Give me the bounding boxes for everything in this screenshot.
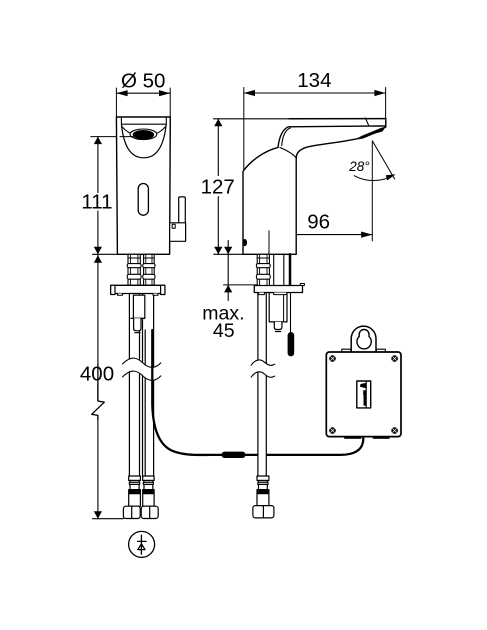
symbol triangle [138,544,145,550]
fitting side [253,476,274,518]
dimension max45 flange reference line [224,284,259,286]
dimension 400 line lower [97,384,99,402]
break wave line 2 side [251,372,275,377]
fitting front A [123,476,140,519]
box top tab left [342,349,351,352]
dimension 134 arrow right [374,90,385,96]
side spout tip vertical edge [385,118,387,127]
outlet outer ellipse [130,129,157,140]
dimension 111 arrow down [94,247,102,255]
28 degree arc arrowhead [386,174,396,180]
svg-text:28°: 28° [348,159,370,174]
side shank box inner line [283,293,285,322]
break wave line 1 front [123,358,161,367]
side hose [258,293,266,477]
CONTROL BOX [326,326,401,439]
sensor window front [138,184,148,216]
box hanger keyhole [357,330,371,349]
front flange right cap [161,285,165,294]
cable vertical run [152,330,221,455]
box foot right [373,437,390,439]
front break band [123,358,161,380]
outlet dark ellipse [133,130,155,139]
dimension 127 arrow down [214,247,222,255]
front shank box below flange [133,295,144,318]
outlet axis construction line [371,141,373,241]
box screw top-left [329,355,336,362]
dimension 111 callout line to outlet [91,136,133,138]
box label flag [360,383,366,389]
dimension 127 top extension line (spout top level) [214,118,291,120]
front spout smile arc [122,126,166,136]
front hood inner edge line [121,117,166,124]
dimension 111 callout line tip over ellipse [120,136,133,138]
hose A front [129,293,139,477]
front flange notch left [118,294,123,296]
dimension max45 line [227,241,229,301]
dimension 111 line lower [97,211,99,254]
dimension 134 extension line left / body edge extension [243,88,245,172]
side tailpiece [274,322,282,330]
dimension 127 line upper [217,119,219,176]
dimension 400 break zigzag [92,364,105,421]
box screw bottom-right [391,427,398,434]
side cable below flange [290,293,292,335]
front shank box top line [131,317,145,319]
front tailpiece [134,318,141,331]
dimension Ø50 extension line right [169,88,171,117]
front fitting stack B [143,254,155,285]
protective low voltage symbol [129,531,155,557]
28 degree arc [354,175,394,181]
front flange left cap [111,285,115,294]
dimension 96 arrow right [361,232,372,238]
side lever bar [179,197,186,223]
cable inline connector [222,452,246,458]
side spout tick mark [365,118,369,126]
dimension 134 line [244,92,386,94]
side sensor eye [243,239,248,246]
BOTTOM HOSE FITTINGS [123,476,274,519]
box body [326,352,401,437]
side background tube lines [273,254,275,285]
hose B front [143,293,154,477]
dimension Ø50 arrow right [159,90,170,96]
svg-text:96: 96 [307,210,330,233]
symbol vertical line [140,535,142,554]
dimension 400 line upper [97,255,99,363]
side shank box [269,293,287,322]
deck extension line middle [214,253,243,255]
dimension 400 bottom reference line [93,518,124,520]
side flange right tab [300,284,304,286]
front body outline [116,117,170,254]
dimension 400 arrow up [94,255,102,263]
box hanger loop [351,326,376,352]
box label inner vertical line [365,382,367,408]
svg-text:134: 134 [297,69,331,92]
side spout top back edge [289,118,386,120]
symbol circle [129,531,155,557]
cable horizontal run to control box [246,437,364,455]
dimension Ø50 arrow left [116,90,127,96]
dimension 111 arrow up [94,137,102,145]
side body and spout outline [243,118,386,254]
BELOW DECK SIDE [254,254,304,476]
dimension max45 arrow down at deck [224,247,232,255]
front fitting stack A [127,254,141,285]
dimension 134 arrow left [244,90,255,96]
dimension 96 extension line left over body [268,231,270,260]
box foot left [344,437,361,439]
front hood chin arc [122,124,167,158]
symbol horizontal bar [138,540,147,542]
deck extension line left [93,253,118,255]
side cable end plug [288,332,295,356]
shank and flange front [111,254,165,332]
box label [357,381,371,408]
side cable thick above flange [289,254,292,285]
svg-text:127: 127 [201,175,235,198]
hose B inner wall line [144,330,146,477]
side fitting stack [256,254,270,285]
break wave line 2 front [123,371,161,380]
dimension 111 line upper [97,137,99,193]
side flange notch left [259,293,265,295]
side tailpiece tip line [276,331,281,333]
svg-text:45: 45 [213,320,235,342]
FRONT VIEW FAUCET [116,117,185,254]
dimension max45 arrow up at flange [224,285,232,293]
svg-text:400: 400 [80,363,114,386]
BELOW DECK FRONT [129,293,153,477]
dimension 96 arrow left [269,232,280,238]
box top tab right [376,349,385,352]
SIDE VIEW FAUCET [243,118,387,260]
front escutcheon flange [111,285,165,293]
box screw bottom-left [329,427,336,434]
side hump inner arc [282,128,291,146]
break band white front [123,358,161,380]
front tailpiece tip line [135,332,140,334]
side head to body junction line [280,148,296,159]
28 degree slant line [373,142,395,179]
dimension Ø50 extension line left [115,88,117,117]
sensor cable from front faucet [152,330,363,458]
box screw top-right [391,355,398,362]
fitting front B [141,476,158,519]
side break band [251,360,275,377]
svg-text:111: 111 [81,191,112,214]
break wave line 1 side [251,360,275,365]
dimension 400 arrow down [94,511,102,519]
box label bar [363,390,366,405]
dimension 96 extension line left [268,231,270,260]
break band white side [251,360,275,377]
dimension 127 line lower [217,197,219,255]
front flange notch right [153,294,158,296]
side lever small square [172,224,175,228]
dimension 134 extension line right [385,88,387,123]
svg-text:Ø 50: Ø 50 [121,70,165,93]
dimension Ø50 line [116,92,170,94]
side lever block [170,223,185,242]
side flange notch middle [274,293,287,295]
side escutcheon flange [254,286,302,293]
outlet dark sliver [358,126,386,139]
dimension 127 arrow up [214,119,222,127]
dimension 96 line [269,234,372,236]
